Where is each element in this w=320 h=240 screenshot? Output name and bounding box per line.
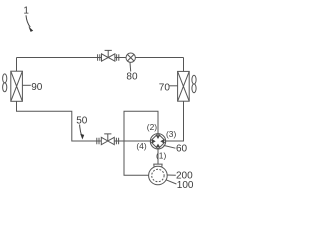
four-way valve 60	[150, 134, 165, 149]
label 200 with leader line	[167, 174, 176, 176]
svg-text:50: 50	[76, 115, 88, 126]
svg-text:100: 100	[177, 180, 194, 191]
fan of heat exchanger 90	[3, 74, 7, 92]
svg-text:60: 60	[176, 143, 188, 154]
leader arrow for figure number 1	[26, 15, 30, 27]
shut-off valve on lower line	[97, 134, 119, 145]
compressor 100	[149, 164, 168, 185]
wire: four-way valve port 2 up, left, down to compressor suction	[124, 111, 158, 175]
wire: below heat exchanger 70 down and left to four-way valve port 3	[166, 101, 184, 141]
expansion valve 80	[126, 53, 135, 62]
wire: below heat exchanger 90 down, right, down, right to valve 50	[17, 101, 151, 141]
svg-text:70: 70	[159, 82, 171, 93]
label 100 with leader line	[166, 180, 176, 184]
wire: top horizontal line	[17, 57, 184, 59]
wire: left vertical from top line to heat exchanger 90	[16, 58, 18, 72]
shut-off valve on top line	[98, 50, 119, 61]
fan of heat exchanger 70	[192, 75, 196, 92]
wire: four-way valve port 1 down to compressor	[157, 149, 159, 164]
svg-text:90: 90	[31, 82, 43, 93]
svg-text:80: 80	[126, 72, 138, 83]
svg-text:(2): (2)	[147, 122, 157, 132]
svg-text:(4): (4)	[136, 141, 146, 151]
label 80 with leader line	[129, 62, 132, 71]
label 90 with leader line	[22, 84, 30, 86]
wire: right vertical from top line to heat exchanger 70	[183, 58, 185, 72]
svg-text:1: 1	[23, 6, 29, 17]
svg-text:(3): (3)	[166, 129, 176, 139]
heat exchanger 90	[11, 71, 23, 101]
label 60 with leader line	[164, 145, 176, 148]
heat exchanger 70	[178, 71, 190, 101]
